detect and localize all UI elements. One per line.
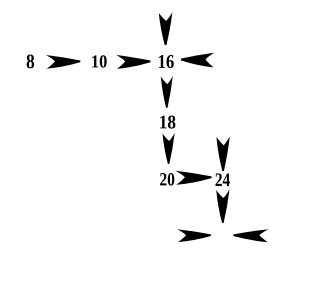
node 8 [27,55,35,69]
node 16 [159,55,174,68]
arrow into 16 from right [181,53,214,68]
arrow bottom pointing left [233,229,268,242]
arrow bottom pointing right [177,229,211,242]
arrow 18 to 20 [163,133,175,164]
node 24 [216,173,230,186]
node 18 [160,116,175,129]
arrow into 24 from above [216,136,229,171]
arrow into 16 from above [159,12,173,45]
arrow 20 to 24 [176,171,212,185]
arrow 16 to 18 [161,76,173,108]
arrow 24 down [216,189,229,223]
node 20 [160,173,174,186]
node 10 [92,55,107,67]
arrow 10 to 16 [116,55,150,69]
arrow 8 to 10 [46,55,80,69]
